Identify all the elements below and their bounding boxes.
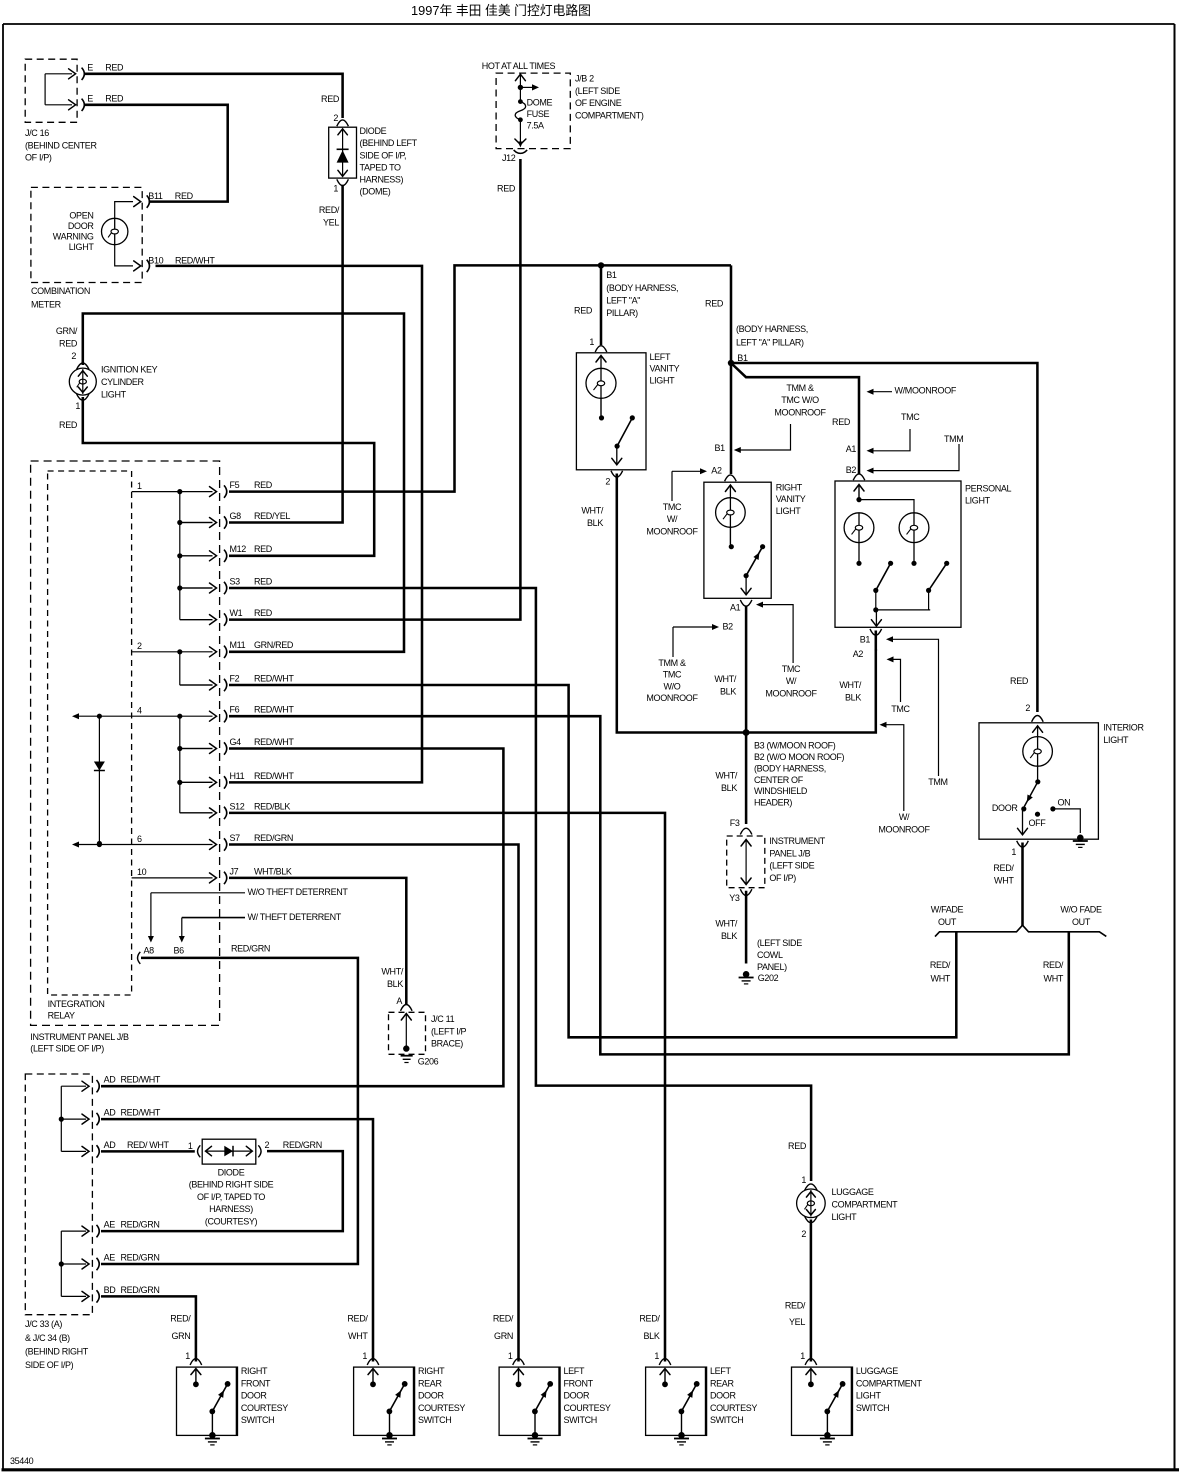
label color WHT/BLK at J7 (254, 866, 292, 876)
svg-text:G4: G4 (230, 737, 242, 747)
svg-text:METER: METER (31, 300, 62, 310)
J/C33/34 pin AE stub (61, 1258, 99, 1270)
svg-text:BLK: BLK (720, 686, 736, 696)
wire WHT/BLK personal B1 down (875, 631, 878, 652)
label TMC upper right (901, 412, 920, 422)
svg-text:(BEHIND RIGHT: (BEHIND RIGHT (25, 1347, 89, 1357)
label OFF and contact (1029, 812, 1047, 828)
label interior light (1103, 723, 1144, 745)
svg-text:RED/WHT: RED/WHT (254, 737, 294, 747)
svg-text:BLK: BLK (845, 692, 861, 702)
svg-text:COURTESY: COURTESY (710, 1403, 757, 1413)
wire RED to interior light (731, 363, 1037, 712)
personal light box (835, 481, 961, 627)
label pin 1 courtesy diode (188, 1141, 193, 1151)
wire RED/WHT AD to right rear door switch (101, 1119, 373, 1361)
label ON and contact (1050, 797, 1070, 811)
interior DOOR to pin 1 arrow (1018, 809, 1028, 835)
label A1 right vanity (730, 603, 741, 613)
J/C33/34 pin AE stub (61, 1225, 99, 1237)
connector bump Y3 (740, 889, 752, 895)
svg-text:RED: RED (497, 184, 516, 194)
svg-text:BRACE): BRACE) (431, 1039, 463, 1049)
svg-text:B1: B1 (737, 353, 748, 363)
svg-text:(BODY HARNESS,: (BODY HARNESS, (736, 324, 808, 334)
svg-text:M11: M11 (230, 640, 246, 650)
svg-text:COURTESY: COURTESY (418, 1403, 465, 1413)
svg-text:RED: RED (59, 420, 78, 430)
label ignition key cylinder light (101, 364, 158, 399)
label pin 1 ignition light (75, 401, 80, 411)
svg-text:DOOR: DOOR (992, 803, 1018, 813)
label pin AD (104, 1075, 117, 1085)
connector bump right vanity A2 (725, 475, 737, 481)
label pin E bottom (87, 94, 93, 104)
relay pin row J7 stub (0, 0, 1, 1)
svg-text:AD: AD (104, 1140, 117, 1150)
svg-text:1997年 丰田 佳美 门控灯电路图: 1997年 丰田 佳美 门控灯电路图 (411, 3, 591, 18)
label W/FADE OUT (931, 905, 964, 927)
label pin BD (104, 1285, 117, 1295)
label personal light (965, 484, 1012, 506)
svg-text:(LEFT SIDE OF I/P): (LEFT SIDE OF I/P) (30, 1044, 104, 1054)
svg-text:FUSE: FUSE (527, 109, 550, 119)
wire WHT/BLK Y3 to G202 (745, 891, 748, 964)
label pin 2 courtesy diode (265, 1140, 270, 1150)
RIGHT REAR DOOR COURTESY SWITCH box and contacts (354, 1359, 415, 1445)
svg-text:RED/: RED/ (1043, 960, 1064, 970)
svg-text:COMPARTMENT): COMPARTMENT) (575, 111, 644, 121)
ignition key cylinder light lamp (69, 363, 96, 400)
relay pin S12 wire stub (180, 807, 227, 819)
relay pin row G4 stub (180, 748, 213, 750)
svg-text:RIGHT: RIGHT (776, 483, 803, 493)
label WHT/BLK at J/C11 (381, 967, 403, 989)
connector bump left vanity pin 1 (595, 346, 607, 352)
relay pin F5 wire stub (132, 481, 227, 498)
relay pin row S3 stub (180, 587, 213, 589)
label pin 1 LUGGAGE COMPARTMENT switch (800, 1351, 805, 1361)
instrument panel J/B box (F3-Y3) (727, 836, 765, 888)
svg-text:LIGHT: LIGHT (832, 1212, 858, 1222)
label pin E top (87, 63, 93, 73)
svg-text:SWITCH: SWITCH (241, 1415, 274, 1425)
connector bump personal light B2 (853, 474, 865, 480)
svg-text:Y3: Y3 (729, 893, 740, 903)
wire lamp to B10 pin (115, 245, 133, 266)
svg-text:1: 1 (508, 1351, 513, 1361)
svg-text:DOOR: DOOR (241, 1391, 267, 1401)
title (411, 3, 591, 18)
svg-text:HARNESS): HARNESS) (209, 1204, 253, 1214)
label pin W1 (230, 608, 243, 618)
label color RED at W1 (254, 608, 273, 618)
svg-text:1: 1 (800, 1351, 805, 1361)
svg-text:E: E (87, 63, 93, 73)
label J/C 16 (25, 128, 97, 163)
svg-text:YEL: YEL (789, 1317, 805, 1327)
svg-text:7.5A: 7.5A (527, 121, 544, 131)
svg-text:DIODE: DIODE (218, 1167, 245, 1177)
relay pin M11 wire stub (132, 641, 227, 658)
svg-text:RED/GRN: RED/GRN (121, 1220, 160, 1230)
svg-text:OF I/P): OF I/P) (769, 873, 796, 883)
svg-text:RED/WHT: RED/WHT (254, 673, 294, 683)
relay pin row F6 stub (0, 0, 1, 1)
svg-text:LUGGAGE: LUGGAGE (856, 1366, 898, 1376)
svg-text:RIGHT: RIGHT (241, 1366, 268, 1376)
svg-text:MOONROOF: MOONROOF (646, 693, 698, 703)
label F3 (730, 818, 740, 828)
svg-text:RELAY: RELAY (48, 1011, 75, 1021)
label Y3 (729, 893, 740, 903)
svg-text:BLK: BLK (721, 783, 737, 793)
label pin M11 (230, 640, 246, 650)
svg-text:RED/: RED/ (493, 1314, 514, 1324)
svg-text:W/: W/ (899, 812, 910, 822)
label pin F2 (230, 673, 240, 683)
wire RED/BLK relay S12 to left rear door switch (229, 813, 665, 1362)
svg-text:(COURTESY): (COURTESY) (205, 1217, 258, 1227)
svg-text:RED: RED (788, 1141, 807, 1151)
wire RED from J/C16 E to combination meter B11 (84, 105, 228, 202)
svg-text:RED/GRN: RED/GRN (231, 944, 270, 954)
label J12 (502, 153, 516, 163)
svg-text:RED: RED (254, 608, 273, 618)
svg-text:TMC: TMC (891, 704, 910, 714)
svg-text:2: 2 (265, 1140, 270, 1150)
relay pin row S12 stub (180, 812, 213, 814)
svg-text:MOONROOF: MOONROOF (765, 688, 817, 698)
annotation arrow B1 TMM (down) (886, 636, 939, 776)
label pin 2 interior (1025, 703, 1030, 713)
label color RED/GRN at AE row (121, 1252, 160, 1262)
relay pin M12 wire stub (180, 550, 227, 562)
svg-text:A8: A8 (144, 946, 155, 956)
label WHT/BLK left vanity (581, 506, 603, 528)
svg-text:B2: B2 (846, 465, 857, 475)
diode (dome) symbol (337, 129, 349, 177)
relay pin W1 wire stub (180, 613, 227, 625)
label pin 2 luggage light (801, 1229, 806, 1239)
interior lamp feed arrow (1033, 726, 1043, 737)
wire RED relay S3 to luggage light (229, 588, 811, 1181)
connector bump dome diode pin 1 (337, 179, 349, 185)
svg-text:2: 2 (71, 351, 76, 361)
svg-text:COMPARTMENT: COMPARTMENT (832, 1200, 899, 1210)
svg-text:WHT/: WHT/ (381, 967, 403, 977)
label RIGHT FRONT DOOR COURTESY SWITCH (241, 1366, 288, 1425)
svg-text:OF I/P): OF I/P) (25, 153, 52, 163)
svg-text:A2: A2 (711, 465, 722, 475)
svg-text:2: 2 (333, 113, 338, 123)
svg-text:GRN: GRN (171, 1331, 190, 1341)
svg-text:WHT: WHT (1044, 973, 1064, 983)
svg-text:B11: B11 (148, 191, 163, 201)
svg-text:2: 2 (1025, 703, 1030, 713)
label B1 at dot (737, 353, 748, 363)
wire lamp to contact right vanity (729, 527, 734, 549)
label color RED/GRN at AE row (121, 1220, 160, 1230)
wire RED relay F5 trunk (229, 265, 731, 491)
svg-text:IGNITION KEY: IGNITION KEY (101, 364, 158, 374)
label color RED/WHT at AD row (121, 1075, 161, 1085)
svg-text:RED/WHT: RED/WHT (254, 705, 294, 715)
svg-text:RED/: RED/ (993, 863, 1014, 873)
label color RED/YEL at G8 (254, 511, 290, 521)
svg-text:LEFT: LEFT (650, 352, 671, 362)
svg-text:1: 1 (1011, 847, 1016, 857)
svg-text:W/: W/ (667, 514, 678, 524)
connector bump interior pin 1 (1017, 841, 1029, 847)
svg-text:WHT: WHT (994, 875, 1014, 885)
svg-text:SWITCH: SWITCH (564, 1415, 597, 1425)
personal light lamp 2 (899, 513, 929, 543)
left vanity switch to pin 2 arrow (612, 446, 622, 465)
label RED/WHT w/o fade (1043, 960, 1064, 983)
label A at J/C11 (396, 996, 402, 1006)
svg-text:WARNING: WARNING (53, 232, 94, 242)
right vanity lamp feed arrow (725, 485, 735, 498)
svg-text:TAPED TO: TAPED TO (360, 162, 402, 172)
svg-text:HEADER): HEADER) (754, 798, 792, 808)
label TMC W/ MOONROOF (left) (646, 502, 698, 536)
dome fuse 7.5A symbol (515, 87, 526, 147)
wire RED/WHT AD to courtesy diode pin 1 (101, 1150, 195, 1153)
label W/O FADE OUT (1060, 905, 1102, 927)
J/C33/34 pin AD stub (61, 1145, 99, 1157)
LEFT FRONT DOOR COURTESY SWITCH box and contacts (499, 1359, 560, 1445)
label wire RED top (105, 63, 124, 73)
svg-text:DOOR: DOOR (418, 1391, 444, 1401)
svg-text:RED/: RED/ (347, 1314, 368, 1324)
label RED/YEL luggage (785, 1301, 806, 1327)
wire RED diagonal to personal light branch (731, 363, 859, 474)
svg-text:FRONT: FRONT (241, 1378, 271, 1388)
svg-text:W1: W1 (230, 608, 243, 618)
svg-text:COMBINATION: COMBINATION (31, 286, 90, 296)
svg-text:W/ THEFT DETERRENT: W/ THEFT DETERRENT (248, 912, 342, 922)
relay internal diode (94, 716, 105, 846)
svg-text:DOOR: DOOR (564, 1391, 590, 1401)
svg-text:PANEL): PANEL) (757, 962, 787, 972)
svg-text:RED: RED (105, 63, 124, 73)
svg-text:LIGHT: LIGHT (101, 389, 127, 399)
label RED luggage feed (788, 1141, 807, 1151)
svg-text:COMPARTMENT: COMPARTMENT (856, 1378, 923, 1388)
svg-text:RED: RED (59, 338, 78, 348)
fuse feed arrow up (515, 74, 525, 87)
ground G202 (739, 971, 754, 984)
svg-text:WHT/: WHT/ (715, 771, 737, 781)
svg-text:PILLAR): PILLAR) (606, 308, 638, 318)
svg-text:F2: F2 (230, 673, 240, 683)
label B2 right vanity variant (723, 621, 734, 631)
label G202 (758, 973, 779, 983)
label TMM lower (928, 777, 947, 787)
svg-text:SIDE OF I/P,: SIDE OF I/P, (360, 150, 407, 160)
junction dot personal lamps (856, 497, 861, 502)
relay pin G4 wire stub (180, 742, 227, 754)
label W/MOONROOF with arrow (867, 386, 957, 396)
svg-text:CYLINDER: CYLINDER (101, 377, 145, 387)
svg-text:LEFT "A" PILLAR): LEFT "A" PILLAR) (736, 338, 804, 348)
left vanity light lamp (586, 368, 616, 398)
svg-text:RED/WHT: RED/WHT (254, 771, 294, 781)
label B10 (148, 255, 163, 265)
svg-text:RED: RED (574, 306, 593, 316)
wire RED/GRN courtesy diode to J/C34 AE (101, 1151, 343, 1231)
junction dot WHT/BLK node (743, 729, 750, 736)
label color RED/GRN at S7 (254, 833, 293, 843)
svg-text:TMC: TMC (663, 670, 682, 680)
label RED/GRN at diode out (283, 1140, 322, 1150)
connector pin E (top) (69, 68, 85, 80)
left vanity light box (576, 353, 646, 470)
relay pin row F2 stub (180, 684, 213, 686)
svg-text:(BEHIND CENTER: (BEHIND CENTER (25, 140, 97, 150)
label pin 1 LEFT REAR switch (654, 1351, 659, 1361)
page number 35440 (10, 1456, 34, 1466)
connector bump right vanity A1 (740, 600, 752, 606)
personal light lamp 1 (844, 513, 874, 543)
svg-text:1: 1 (188, 1141, 193, 1151)
wire RED/GRN BD to right front door switch (101, 1296, 196, 1361)
svg-text:BD: BD (104, 1285, 117, 1295)
relay pin S3 wire stub (180, 582, 227, 594)
label pin G4 (230, 737, 242, 747)
instrument panel J/B outer box (31, 461, 220, 1025)
personal switch common wire (873, 590, 930, 612)
J/C33 bus AD group (59, 1086, 64, 1151)
connector courtesy diode pin 2 (258, 1145, 261, 1157)
annotation arrow A2 TMC (down) (887, 656, 901, 702)
label pin 1 left vanity (589, 337, 594, 347)
svg-text:WHT/: WHT/ (581, 506, 603, 516)
relay pin F6 wire stub (72, 706, 227, 723)
label RED/ WHT at RIGHT REAR switch wire (347, 1314, 368, 1341)
svg-text:BLK: BLK (644, 1331, 660, 1341)
LUGGAGE COMPARTMENT LIGHT SWITCH box and contacts (792, 1359, 853, 1445)
label RED/GRN at A8 (231, 944, 270, 954)
label TMM & TMC W/O MOONROOF (lower) (646, 658, 698, 703)
svg-text:WHT: WHT (348, 1331, 368, 1341)
annotation W/O THEFT DETERRENT (148, 887, 348, 942)
svg-text:INSTRUMENT: INSTRUMENT (769, 836, 825, 846)
wire RED ignition to relay M12 (83, 397, 374, 556)
svg-text:GRN: GRN (494, 1331, 513, 1341)
label wire RED bottom (105, 94, 124, 104)
svg-text:W/O FADE: W/O FADE (1060, 905, 1102, 915)
annotation arrow B2 TMM TMC w/o moonroof (673, 624, 719, 657)
svg-text:COWL: COWL (757, 950, 783, 960)
label W/ MOONROOF lower (878, 812, 930, 834)
svg-text:1: 1 (801, 1175, 806, 1185)
svg-text:TMM: TMM (944, 434, 963, 444)
svg-text:YEL: YEL (323, 217, 339, 227)
right vanity switch to A1 arrow (741, 576, 751, 595)
svg-text:TMM &: TMM & (786, 383, 814, 393)
svg-text:10: 10 (137, 867, 147, 877)
label color RED/WHT at F6 (254, 705, 294, 715)
label RIGHT REAR DOOR COURTESY SWITCH (418, 1366, 465, 1425)
svg-text:SIDE OF I/P): SIDE OF I/P) (25, 1360, 74, 1370)
svg-text:LIGHT: LIGHT (856, 1391, 882, 1401)
label pin M12 (230, 544, 247, 554)
label pin 1 interior (1011, 847, 1016, 857)
label HOT AT ALL TIMES (482, 61, 556, 71)
svg-text:TMM: TMM (928, 777, 947, 787)
wire RED/WHT w/o fade branch to relay F6 (229, 716, 1069, 1054)
label combination meter (31, 286, 90, 310)
svg-text:B1: B1 (860, 634, 871, 644)
svg-text:A1: A1 (730, 603, 741, 613)
svg-text:(BODY HARNESS,: (BODY HARNESS, (754, 763, 826, 773)
label pin F6 (230, 705, 240, 715)
svg-text:OFF: OFF (1029, 818, 1047, 828)
interior light lamp (1023, 737, 1053, 767)
left vanity lamp feed arrow (596, 356, 606, 369)
svg-text:W/O: W/O (664, 681, 681, 691)
J/C33/34 pin AD stub (61, 1113, 99, 1125)
svg-text:(LEFT SIDE: (LEFT SIDE (575, 86, 620, 96)
interior ON wire to ground (1053, 809, 1080, 833)
svg-text:J/C 11: J/C 11 (431, 1014, 455, 1024)
connector bump interior pin 2 (1032, 716, 1044, 722)
svg-text:TMM &: TMM & (658, 658, 686, 668)
label RED right branch (705, 299, 724, 309)
label diode (dome) (360, 126, 418, 197)
wire RED/YEL dome diode pin1 to relay G8 (229, 185, 343, 523)
label luggage compartment light (832, 1187, 899, 1222)
svg-text:DIODE: DIODE (360, 126, 387, 136)
junction dot in fuse box (518, 85, 523, 90)
svg-text:1: 1 (137, 481, 142, 491)
svg-text:ON: ON (1058, 797, 1071, 807)
relay pin row M12 stub (180, 555, 213, 557)
connector bump dome diode pin 2 (337, 120, 349, 126)
svg-text:FRONT: FRONT (564, 1378, 594, 1388)
relay pin F2 wire stub (180, 679, 227, 691)
svg-text:(DOME): (DOME) (360, 187, 391, 197)
label GRN/RED (56, 326, 78, 348)
label pin 1 RIGHT FRONT switch (185, 1351, 190, 1361)
relay pin J7 wire stub (132, 867, 227, 884)
svg-text:RED/YEL: RED/YEL (254, 511, 290, 521)
svg-text:DOOR: DOOR (710, 1391, 736, 1401)
annotation line TMM TMC w/o moonroof to B1 (734, 424, 791, 453)
svg-text:WHT/BLK: WHT/BLK (254, 866, 292, 876)
svg-text:LUGGAGE: LUGGAGE (832, 1187, 874, 1197)
svg-text:J12: J12 (502, 153, 516, 163)
fuse box J/B 2 (496, 73, 570, 149)
label pin J7 (230, 866, 239, 876)
svg-text:OUT: OUT (1072, 917, 1091, 927)
svg-text:WHT/: WHT/ (715, 919, 737, 929)
interior lamp to contact (1035, 766, 1040, 784)
svg-text:A1: A1 (846, 444, 857, 454)
label G206 (418, 1057, 439, 1067)
svg-text:F6: F6 (230, 705, 240, 715)
label A2 personal bottom (853, 649, 864, 659)
svg-text:RED: RED (105, 94, 124, 104)
relay pin row W1 stub (180, 619, 213, 621)
label diode (courtesy) (189, 1167, 274, 1226)
svg-text:LIGHT: LIGHT (776, 506, 802, 516)
label TMM upper right (944, 434, 963, 444)
svg-text:(LEFT SIDE: (LEFT SIDE (757, 938, 802, 948)
svg-text:GRN/: GRN/ (56, 326, 78, 336)
